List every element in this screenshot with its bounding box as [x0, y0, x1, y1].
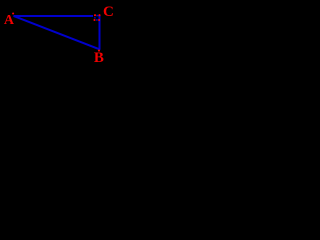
wire segment AB — [14, 16, 100, 49]
node C label — [103, 7, 114, 17]
wire segment AC — [14, 15, 94, 17]
right angle mark at C — [94, 15, 98, 21]
node B label — [94, 53, 104, 63]
node A label — [4, 16, 14, 26]
wire segment CB — [99, 15, 101, 50]
node C point / right angle corner dots — [93, 14, 100, 21]
node B point — [98, 50, 100, 52]
node A point — [12, 12, 14, 14]
